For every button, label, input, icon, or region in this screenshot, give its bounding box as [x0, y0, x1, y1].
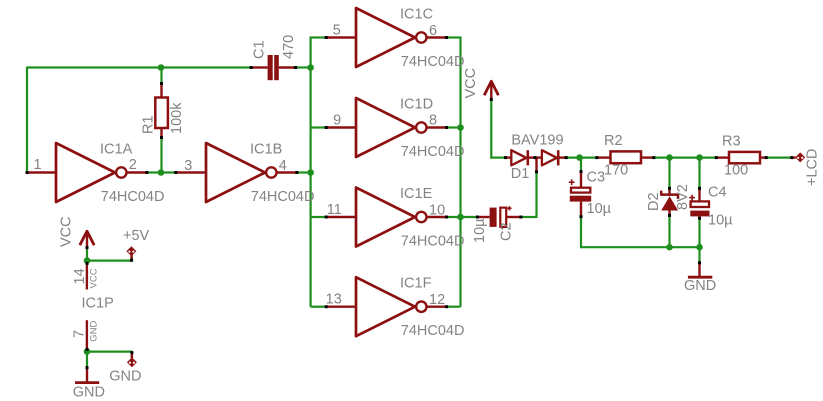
svg-text:7: 7 [72, 330, 88, 338]
svg-text:170: 170 [604, 163, 628, 179]
svg-text:IC1A: IC1A [100, 141, 133, 157]
svg-text:R2: R2 [604, 133, 623, 149]
svg-text:R3: R3 [722, 134, 741, 150]
svg-text:IC1F: IC1F [400, 276, 432, 292]
svg-text:14: 14 [72, 268, 88, 284]
svg-text:470: 470 [281, 35, 297, 59]
svg-text:10µ: 10µ [708, 213, 733, 229]
svg-text:5: 5 [333, 23, 341, 39]
svg-text:100: 100 [724, 163, 748, 179]
svg-text:10: 10 [429, 203, 445, 219]
svg-text:C1: C1 [252, 40, 268, 59]
svg-text:4: 4 [279, 158, 287, 174]
svg-text:IC1D: IC1D [400, 96, 433, 112]
svg-text:BAV199: BAV199 [511, 132, 563, 148]
svg-text:11: 11 [327, 202, 342, 218]
svg-text:VCC: VCC [59, 216, 75, 247]
svg-text:IC1B: IC1B [250, 141, 282, 157]
svg-text:10µ: 10µ [587, 201, 612, 217]
svg-text:12: 12 [429, 292, 445, 308]
svg-text:C4: C4 [708, 185, 727, 201]
svg-text:VCC: VCC [463, 68, 479, 99]
svg-text:D2: D2 [646, 192, 662, 211]
svg-text:C2: C2 [499, 222, 515, 241]
svg-text:R1: R1 [141, 115, 157, 134]
svg-text:74HC04D: 74HC04D [401, 54, 465, 70]
svg-text:VCC: VCC [89, 268, 100, 288]
svg-text:6: 6 [429, 23, 437, 39]
svg-text:GND: GND [73, 385, 105, 401]
svg-text:+5V: +5V [123, 228, 150, 244]
svg-text:74HC04D: 74HC04D [101, 189, 165, 205]
svg-text:8V2: 8V2 [675, 184, 691, 210]
svg-text:2: 2 [129, 157, 137, 173]
svg-text:IC1C: IC1C [400, 6, 433, 22]
svg-text:IC1P: IC1P [82, 296, 114, 312]
svg-text:C3: C3 [587, 169, 606, 185]
svg-text:GND: GND [684, 278, 716, 294]
svg-text:9: 9 [333, 113, 341, 129]
svg-text:IC1E: IC1E [400, 186, 433, 202]
svg-text:74HC04D: 74HC04D [401, 323, 465, 339]
svg-text:+LCD: +LCD [805, 149, 821, 186]
svg-text:10µ: 10µ [472, 218, 488, 243]
svg-text:GND: GND [109, 368, 141, 384]
svg-text:1: 1 [34, 157, 42, 173]
svg-text:74HC04D: 74HC04D [251, 189, 315, 205]
svg-text:13: 13 [326, 292, 342, 308]
svg-text:D1: D1 [511, 166, 530, 182]
svg-text:74HC04D: 74HC04D [401, 233, 465, 249]
svg-text:100k: 100k [169, 102, 185, 134]
svg-text:3: 3 [184, 158, 192, 174]
svg-text:74HC04D: 74HC04D [401, 144, 465, 160]
svg-text:GND: GND [88, 321, 99, 342]
svg-text:8: 8 [429, 113, 437, 129]
